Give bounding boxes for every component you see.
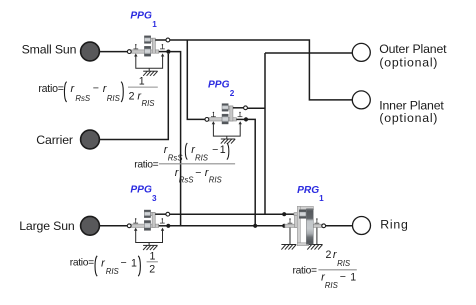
node Outer Planet terminal: [352, 43, 370, 61]
label PPG1: [130, 10, 157, 29]
svg-text:1: 1: [350, 272, 356, 284]
wire Large Sun to PPG3: [99, 225, 127, 227]
svg-text:2: 2: [149, 264, 155, 276]
svg-text:1: 1: [139, 76, 145, 88]
wire PPG1 junction to carrier rail: [168, 52, 180, 226]
upper input wire: [284, 213, 294, 215]
planetary gear symbol PPG3: [127, 210, 170, 250]
svg-text:2: 2: [326, 249, 332, 261]
planetary gear symbol PPG2: [205, 104, 248, 144]
node Small Sun terminal: [81, 42, 100, 61]
svg-text:−: −: [212, 144, 218, 156]
wire PPG2 top to Outer Planet and upper rail: [248, 53, 353, 214]
label PRG1: [297, 185, 324, 203]
node Ring terminal: [353, 217, 371, 235]
carrier arm vertical: [295, 213, 298, 228]
right ground stem: [316, 227, 318, 244]
carrier rail wire: [168, 225, 284, 227]
svg-text:Ring: Ring: [380, 218, 409, 232]
svg-text:1: 1: [131, 257, 137, 269]
wire Small Sun to PPG1: [99, 51, 127, 53]
svg-text:RIS: RIS: [195, 154, 209, 163]
formula ratio PPG1: [38, 76, 157, 109]
label PPG2: [208, 79, 235, 98]
svg-text:(optional): (optional): [379, 56, 438, 70]
lower shaft: [285, 224, 298, 227]
svg-text:1: 1: [152, 20, 157, 29]
upper shaft: [294, 213, 299, 216]
junction dot PRG1 upper input: [282, 212, 286, 216]
svg-text:1: 1: [150, 250, 156, 262]
formula ratio PPG2: [134, 143, 235, 185]
svg-text:RIS: RIS: [325, 281, 339, 290]
right pin: [322, 224, 326, 228]
svg-text:PPG: PPG: [130, 10, 152, 21]
svg-text:PRG: PRG: [297, 185, 319, 196]
svg-text:−: −: [93, 83, 99, 95]
right output shaft: [313, 224, 322, 227]
svg-text:RsS: RsS: [168, 154, 184, 163]
ring gear teeth column: [306, 209, 313, 245]
node Carrier terminal: [81, 130, 100, 149]
svg-text:(optional): (optional): [379, 111, 438, 125]
node Inner Planet terminal: [352, 91, 370, 109]
svg-text:Small Sun: Small Sun: [22, 43, 77, 57]
junction dot carrier rail / PPG2: [253, 224, 257, 228]
ring frame left band: [297, 206, 300, 245]
formula ratio PPG3: [70, 250, 158, 276]
svg-text:Carrier: Carrier: [36, 133, 73, 147]
svg-text:3: 3: [152, 194, 157, 203]
svg-text:PPG: PPG: [208, 79, 230, 90]
svg-text:2: 2: [230, 89, 235, 98]
planet gear (small): [299, 210, 306, 219]
ring frame top band: [297, 206, 313, 209]
node Large Sun terminal: [81, 216, 100, 235]
label PPG3: [130, 185, 157, 203]
wire branch to PPG2 input: [187, 40, 205, 119]
svg-text:ratio=: ratio=: [134, 159, 158, 170]
svg-text:RIS: RIS: [337, 259, 351, 268]
svg-text:−: −: [195, 167, 201, 179]
svg-text:RIS: RIS: [107, 94, 121, 103]
svg-text:1: 1: [319, 194, 324, 203]
svg-text:ratio=: ratio=: [293, 265, 318, 276]
svg-text:ratio=: ratio=: [70, 258, 94, 269]
svg-text:ratio=: ratio=: [38, 83, 63, 95]
wire PRG1 to Ring: [326, 225, 353, 227]
left bearing: [288, 220, 293, 224]
svg-text:RIS: RIS: [209, 176, 223, 185]
svg-text:2: 2: [129, 91, 135, 103]
right bearing: [315, 220, 320, 224]
svg-text:1: 1: [220, 144, 226, 156]
right ground hatch: [307, 245, 322, 250]
svg-text:−: −: [340, 271, 346, 283]
upper rail wire (PPG3 top to PRG1): [170, 213, 284, 215]
svg-text:Large Sun: Large Sun: [19, 219, 75, 233]
left ground stem: [289, 227, 291, 244]
left ground hatch: [281, 245, 296, 250]
svg-text:RIS: RIS: [142, 99, 156, 108]
svg-text:Outer Planet: Outer Planet: [379, 42, 447, 56]
svg-text:RIS: RIS: [106, 267, 120, 276]
svg-text:−: −: [121, 257, 127, 269]
wire PPG1 top to Inner Planet: [170, 40, 353, 100]
wire PPG2 junction to carrier rail: [246, 119, 255, 225]
junction dot PRG1 lower input: [282, 224, 286, 228]
svg-text:RsS: RsS: [75, 94, 91, 103]
ring gear symbol PRG1: [281, 206, 325, 249]
planetary gear symbol PPG1: [127, 36, 170, 76]
svg-text:PPG: PPG: [130, 185, 152, 196]
wire Carrier to PPG1 junction (node C): [99, 54, 168, 140]
formula ratio PRG1: [293, 249, 357, 290]
svg-text:RsS: RsS: [179, 176, 195, 185]
ring frame bottom band: [297, 243, 308, 246]
